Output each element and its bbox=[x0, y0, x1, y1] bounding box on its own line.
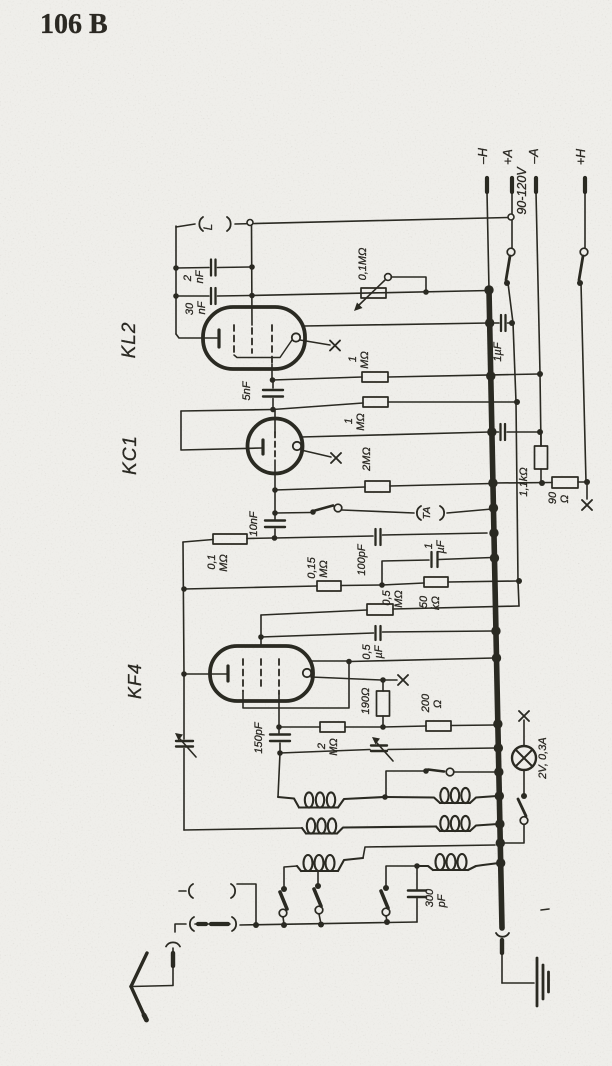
capacitor 0,5uF bbox=[261, 633, 374, 637]
plug in mid jack bbox=[195, 923, 230, 925]
bus junction dots bbox=[484, 285, 493, 294]
wire +H line bbox=[581, 283, 586, 482]
coil winding (antenna primary, tapped) bbox=[284, 866, 297, 887]
KC1 grid terminal circle bbox=[293, 442, 301, 450]
svg-text:2: 2 bbox=[316, 743, 328, 750]
coil winding (antenna secondary) bbox=[417, 866, 433, 870]
wire L jack to +A bbox=[235, 218, 508, 225]
svg-text:0,5: 0,5 bbox=[381, 589, 393, 605]
jack contact (top right) bbox=[231, 884, 235, 898]
svg-text:1µF: 1µF bbox=[492, 341, 504, 361]
svg-text:200: 200 bbox=[420, 693, 432, 713]
KL2 grid terminal circle bbox=[292, 333, 300, 341]
KF4 terminal circle bbox=[303, 669, 311, 677]
resistor 1MOhm (KL2 grid) bbox=[270, 377, 276, 383]
wire top jack to bottom row bbox=[237, 884, 256, 924]
tube KF4 envelope bbox=[210, 646, 313, 701]
resistor 90 Ohm bbox=[494, 482, 552, 485]
potentiometer 0,1MOhm bbox=[361, 288, 386, 298]
coil winding (IF2 primary) bbox=[386, 797, 440, 803]
band switch 3 bbox=[383, 885, 389, 891]
resistor 50kOhm bbox=[379, 582, 385, 588]
svg-text:2V, 0,3A: 2V, 0,3A bbox=[537, 737, 549, 779]
terminal +A bbox=[510, 178, 514, 192]
wire to earth bbox=[502, 982, 534, 984]
wire L jack left bbox=[176, 224, 195, 227]
wire to antenna bbox=[131, 986, 173, 987]
svg-text:1: 1 bbox=[343, 418, 355, 424]
capacitor 100pF bbox=[275, 536, 374, 538]
svg-text:KF4: KF4 bbox=[125, 663, 145, 699]
jack contact (mid left) bbox=[190, 917, 194, 931]
capacitor 1uF bbox=[500, 315, 502, 331]
trimmer capacitor (right) bbox=[280, 750, 370, 754]
coil winding (IF1 secondary) bbox=[302, 828, 306, 834]
svg-text:190Ω: 190Ω bbox=[360, 688, 372, 715]
KF4 grid g3 bbox=[278, 659, 280, 694]
earth ground symbol bbox=[536, 958, 539, 1006]
chassis mark x on +H bbox=[582, 500, 592, 510]
ground jack socket bbox=[496, 933, 509, 937]
lamp 2V 0,3A bbox=[523, 720, 525, 746]
band switch 2 bbox=[315, 883, 321, 889]
tube KC1 envelope bbox=[248, 419, 303, 474]
svg-text:10nF: 10nF bbox=[248, 510, 260, 536]
wire KL2 screen to bus bbox=[304, 323, 489, 326]
wire filament line left of KL2 bbox=[175, 226, 177, 334]
terminal +H bbox=[583, 178, 587, 192]
terminal -H bbox=[485, 178, 489, 192]
KL2 grid g2 bbox=[251, 328, 253, 353]
svg-text:MΩ: MΩ bbox=[355, 413, 367, 431]
wire KF4 screen lead bbox=[260, 615, 262, 646]
resistor 0,5MOhm (screen feed) bbox=[393, 606, 519, 609]
jack contact stub (top left) bbox=[179, 890, 186, 892]
svg-text:30: 30 bbox=[184, 302, 196, 315]
capacitor 2nF bbox=[210, 260, 212, 276]
KC1 grid bbox=[274, 410, 276, 432]
wire 150pF node down to coil row bbox=[278, 753, 280, 797]
resistor 0,15MOhm bbox=[181, 586, 187, 592]
svg-text:50: 50 bbox=[418, 595, 430, 608]
wire -A lead bbox=[536, 192, 540, 373]
wire KC1 terminal to x bbox=[301, 450, 331, 457]
coil winding (IF1 primary) bbox=[278, 797, 299, 808]
resistor 1MOhm (KC1 anode) bbox=[363, 397, 388, 407]
ground plug pin bbox=[500, 940, 504, 953]
speaker jack L bbox=[199, 217, 203, 231]
node 5nF bottom bbox=[270, 407, 276, 413]
wire coil to bus (step) bbox=[363, 845, 495, 858]
svg-text:150pF: 150pF bbox=[253, 721, 265, 753]
KL2 anode lead bbox=[251, 225, 254, 325]
resistor 200 Ohm bbox=[383, 726, 426, 727]
svg-text:300: 300 bbox=[424, 888, 436, 907]
svg-text:90: 90 bbox=[547, 491, 559, 504]
wire KC1 anode side to bus bbox=[301, 432, 490, 437]
svg-text:5nF: 5nF bbox=[241, 380, 253, 400]
svg-text:L: L bbox=[201, 224, 215, 231]
node circle anode junction bbox=[247, 220, 253, 226]
svg-text:100pF: 100pF bbox=[356, 543, 368, 575]
KF4 cathode bbox=[181, 671, 187, 677]
stray mark bbox=[541, 909, 549, 910]
svg-text:TA: TA bbox=[421, 507, 433, 520]
wire 30nF to -H bus bbox=[252, 291, 489, 296]
chassis mark x KF4 bbox=[398, 675, 408, 685]
svg-text:1: 1 bbox=[423, 543, 435, 549]
svg-text:MΩ: MΩ bbox=[328, 738, 340, 756]
capacitor 300pF bbox=[416, 866, 418, 889]
svg-text:Ω: Ω bbox=[432, 700, 444, 708]
svg-text:MΩ: MΩ bbox=[318, 560, 330, 578]
KF4 grid g1 bbox=[242, 659, 244, 691]
capacitor 1uF (second) bbox=[382, 560, 429, 585]
KL2 grid g3 bbox=[271, 325, 273, 364]
capacitor (bus to -A) bbox=[499, 424, 501, 440]
coil tap bbox=[317, 871, 319, 885]
KL2 cathode bbox=[217, 330, 220, 347]
svg-text:µF: µF bbox=[373, 644, 385, 658]
wire KF4 terminal to x bbox=[311, 677, 381, 680]
band switch 1 bbox=[281, 886, 287, 892]
switch on TA row bbox=[275, 512, 310, 515]
resistor 2MOhm (KC1 grid leak) bbox=[272, 487, 278, 493]
switch below lamp bbox=[523, 770, 525, 794]
svg-text:nF: nF bbox=[196, 300, 208, 314]
KF4 grid g2 bbox=[260, 659, 262, 690]
wire jog to KC1 cathode bbox=[181, 411, 262, 450]
antenna symbol bbox=[131, 953, 147, 987]
antenna plug pin bbox=[172, 948, 174, 953]
wire -H lead bbox=[487, 192, 489, 290]
wire grid return line bbox=[183, 542, 184, 674]
tube KL2 envelope bbox=[203, 307, 305, 369]
svg-text:pF: pF bbox=[436, 893, 448, 908]
svg-text:106 B: 106 B bbox=[40, 9, 108, 40]
svg-text:MΩ: MΩ bbox=[218, 554, 230, 572]
svg-text:+H: +H bbox=[574, 148, 588, 165]
wire +A lead bbox=[511, 192, 513, 248]
svg-text:2: 2 bbox=[182, 275, 194, 282]
wire KL2 grid terminal to x bbox=[300, 340, 330, 345]
chassis mark x lamp bbox=[519, 711, 529, 721]
svg-text:KC1: KC1 bbox=[120, 435, 141, 475]
svg-text:+A: +A bbox=[501, 149, 515, 165]
KL2 grid g1 bbox=[233, 325, 235, 356]
svg-text:Ω: Ω bbox=[559, 495, 571, 503]
svg-text:0,15: 0,15 bbox=[306, 556, 318, 578]
svg-text:90-120V: 90-120V bbox=[515, 166, 529, 215]
KC1 cathode bbox=[261, 440, 264, 454]
wire KF4 anode row to bus bbox=[309, 660, 348, 662]
node circle at +A bbox=[508, 214, 514, 220]
svg-text:nF: nF bbox=[194, 269, 206, 283]
capacitor 5nF bbox=[263, 389, 283, 391]
node 300pF bbox=[414, 863, 420, 869]
node on coil row bbox=[382, 794, 388, 800]
svg-text:MΩ: MΩ bbox=[359, 351, 371, 369]
resistor 190 Ohm bbox=[382, 680, 384, 691]
capacitor 30nF bbox=[210, 288, 212, 304]
wire node to switch 3 bbox=[386, 866, 415, 887]
svg-text:µF: µF bbox=[435, 539, 447, 553]
svg-text:0,1MΩ: 0,1MΩ bbox=[357, 248, 369, 281]
bus -H chassis line bbox=[489, 290, 502, 928]
wire bottom row bbox=[240, 922, 417, 925]
switch (wave range, row to bus) bbox=[386, 771, 424, 796]
svg-text:0,5: 0,5 bbox=[361, 643, 373, 659]
wire +H lead bbox=[584, 192, 586, 248]
svg-text:2MΩ: 2MΩ bbox=[361, 447, 373, 472]
wire mid jack left lead bbox=[175, 924, 186, 932]
terminal -A bbox=[534, 178, 538, 192]
coil winding (IF2 secondary) bbox=[436, 827, 440, 832]
chassis mark x KC1 bbox=[331, 453, 341, 463]
wire +A line bbox=[508, 283, 519, 606]
resistor 2MOhm (KF4) bbox=[276, 724, 282, 730]
wire row2 from tuning line bbox=[184, 828, 302, 830]
switch on +H bbox=[580, 248, 588, 256]
trimmer capacitor (left, tuning) bbox=[183, 674, 185, 739]
svg-text:–A: –A bbox=[527, 148, 541, 164]
svg-text:MΩ: MΩ bbox=[393, 590, 405, 608]
svg-text:–H: –H bbox=[476, 147, 490, 165]
capacitor 10nF bbox=[274, 490, 276, 519]
resistor 1,1kOhm bbox=[540, 433, 542, 446]
jack contact (mid right) bbox=[232, 917, 236, 931]
chassis mark x KL2 bbox=[330, 341, 340, 351]
antenna jack socket bbox=[166, 942, 180, 946]
capacitor 150pF bbox=[278, 727, 280, 733]
jack TA bbox=[342, 510, 414, 513]
svg-text:KL2: KL2 bbox=[119, 322, 140, 359]
resistor 0,1MOhm (KF4) bbox=[183, 540, 213, 543]
wire row to 1M and +A bbox=[181, 410, 273, 412]
switch on +A bbox=[507, 248, 515, 256]
svg-text:0,1: 0,1 bbox=[206, 554, 218, 569]
svg-text:1: 1 bbox=[347, 356, 359, 362]
